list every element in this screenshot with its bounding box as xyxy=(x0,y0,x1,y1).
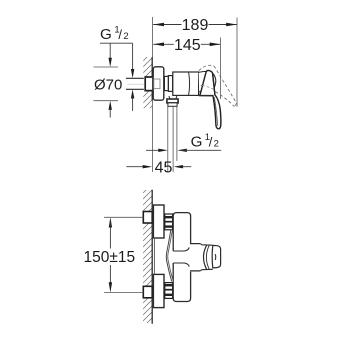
mixer body slab (bottom view) xyxy=(173,213,190,302)
svg-text:45: 45 xyxy=(155,159,173,176)
supply pipe through wall xyxy=(126,77,144,79)
adapter rings xyxy=(164,76,168,90)
waist double curve xyxy=(166,231,171,282)
svg-text:/: / xyxy=(209,135,213,150)
wall extension line down to 45 dim xyxy=(151,101,153,172)
in-wall eccentric (top inlet) xyxy=(143,212,152,224)
in-wall eccentric (bottom inlet) xyxy=(143,286,152,298)
svg-text:G: G xyxy=(100,26,112,43)
extension line right of 145 (cap front) xyxy=(220,38,222,100)
svg-text:2: 2 xyxy=(214,139,219,150)
escutcheon (top inlet) xyxy=(153,205,164,238)
pipe centerline xyxy=(128,83,145,85)
wall face line (top view) xyxy=(151,57,153,101)
label G 1/2 (lower) with leader xyxy=(146,149,164,151)
hidden lever edge seen through knuckle xyxy=(202,85,213,89)
O70 extension lines xyxy=(94,66,119,68)
mixer body (top view) xyxy=(173,72,199,95)
leader to pipe xyxy=(132,43,134,70)
flange / escutcheon (top view) xyxy=(153,67,164,100)
wall hatching (top view) xyxy=(140,50,154,130)
outlet thread extension lines xyxy=(167,106,169,171)
extension line right of 189 (raised lever tip) xyxy=(236,18,238,107)
dimension 45 xyxy=(126,166,148,168)
body ring arc xyxy=(189,72,190,95)
handle knob boss xyxy=(190,244,200,271)
escutcheon (bottom inlet) xyxy=(153,274,164,307)
blade contour line xyxy=(214,97,217,126)
svg-text:2: 2 xyxy=(123,31,128,42)
wall face line (bottom view) xyxy=(151,190,153,324)
body notch for cartridge xyxy=(173,248,189,252)
dashed raised lever xyxy=(199,65,237,106)
underline of G 1/2 xyxy=(100,42,133,44)
socket inside flange xyxy=(154,79,160,89)
150 dimension extension lines xyxy=(104,216,143,218)
union square in wall xyxy=(145,77,152,91)
svg-text:Ø70: Ø70 xyxy=(94,77,122,94)
svg-text:150±15: 150±15 xyxy=(83,249,135,266)
dimension 145 xyxy=(153,43,220,45)
knob cap xyxy=(212,245,220,268)
cartridge cap (dome) xyxy=(199,71,216,91)
union nut (top inlet) xyxy=(165,214,173,230)
union nut (bottom inlet) xyxy=(165,283,173,299)
knob cylinder xyxy=(200,244,213,246)
dimension 189 xyxy=(153,24,237,26)
svg-text:189: 189 xyxy=(182,17,209,34)
knuckle inner edge xyxy=(213,75,215,95)
lower arrow pair xyxy=(109,101,112,110)
leader to flange ext line xyxy=(109,43,111,59)
svg-text:/: / xyxy=(118,27,122,42)
cap bottom edge to blade xyxy=(199,95,213,97)
svg-text:G: G xyxy=(191,134,203,151)
svg-text:145: 145 xyxy=(174,37,201,54)
column between escutcheons xyxy=(153,238,155,274)
dimension 150±15 xyxy=(109,217,112,227)
wall hatching (bottom view) xyxy=(140,182,154,330)
solid lever knuckle and blade xyxy=(200,70,221,128)
shower outlet below body xyxy=(169,96,177,99)
wall extension line up to dimensions xyxy=(151,17,153,57)
